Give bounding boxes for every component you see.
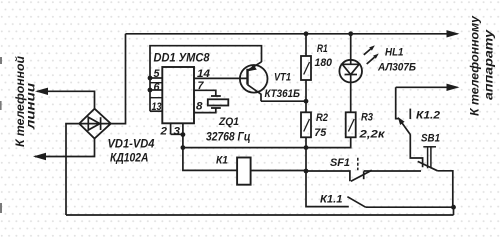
diode bridge VD1-VD4 diamond: [79, 109, 111, 139]
node: bottom right junction: [451, 205, 456, 210]
resistor R3: [346, 112, 356, 137]
wire: top supply rail with arrow to telephone set: [126, 30, 460, 37]
node: junction to R2 line: [181, 145, 186, 150]
svg-text:HL1: HL1: [385, 47, 404, 59]
LED HL1: [339, 34, 362, 83]
K1.2 fixed contact tick: [409, 109, 411, 119]
SF1 right contact stub: [363, 171, 365, 179]
svg-text:DD1 УМС8: DD1 УМС8: [154, 50, 210, 64]
IC DD1 body: [162, 67, 194, 123]
VT1 collector: [248, 85, 262, 102]
node: pin 5 junction: [148, 76, 153, 81]
wire: pin 3 down to K1 coil: [183, 134, 237, 170]
wire: node to R2/R3 bottoms: [183, 148, 306, 171]
wire: IC pin bus loop over DD1 to VT1 emitter: [150, 46, 262, 112]
svg-text:К телефонному: К телефонному: [468, 15, 482, 116]
svg-text:VD1-VD4: VD1-VD4: [108, 138, 156, 150]
svg-text:2,2к: 2,2к: [358, 129, 386, 141]
wire: lower left line to telephone line with arrow (from bridge bottom): [33, 139, 95, 161]
crystal ZQ1: [208, 96, 229, 108]
svg-text:аппарату: аппарату: [482, 28, 496, 100]
wire: lower right line to telephone set with arrow: [396, 84, 460, 91]
node: rail junction at HL1: [348, 31, 353, 36]
resistor R2: [301, 101, 311, 147]
svg-text:3: 3: [174, 126, 181, 138]
node: K1/SF1/K1.1 junction: [304, 169, 309, 174]
button SB1 blade: [418, 161, 438, 170]
wire: bridge left corner down to bottom rail: [66, 124, 79, 215]
VT1 emitter with arrow to base (PNP): [248, 62, 262, 71]
diode inside bridge: [80, 117, 110, 130]
wire: R2 bottom to R3 bottom: [306, 137, 351, 147]
contact K1.2: wire down: [396, 87, 399, 118]
svg-text:75: 75: [314, 127, 327, 139]
wire: upper left line to telephone line with arrow: [35, 88, 95, 109]
VT1 base bar: [246, 69, 248, 85]
svg-text:R1: R1: [317, 43, 328, 55]
wire: node to SF1: [306, 171, 350, 181]
node: collector junction: [304, 99, 309, 104]
pin 13 stub: [150, 110, 162, 112]
wire: pin2-pin3 tie: [171, 133, 183, 135]
SF1 mechanical dashed link: [357, 158, 359, 171]
SB1 actuator: [423, 147, 436, 169]
pin 14 wire to VT1 base: [194, 77, 248, 79]
resistor R1: [301, 34, 311, 101]
svg-text:SB1: SB1: [421, 133, 440, 145]
wire: K1.1 to bottom right node: [366, 206, 454, 208]
svg-text:К1.2: К1.2: [416, 110, 440, 122]
svg-text:К1.1: К1.1: [320, 194, 343, 206]
pin 2 stub: [170, 123, 172, 134]
svg-text:ZQ1: ZQ1: [218, 116, 239, 128]
pin 5 stub: [150, 77, 162, 79]
wire: bridge right corner up to top rail: [111, 34, 126, 124]
svg-text:КТ361Б: КТ361Б: [265, 88, 301, 100]
svg-text:180: 180: [315, 57, 333, 69]
wire: SF1 to SB1: [364, 170, 421, 172]
svg-text:АЛ307Б: АЛ307Б: [377, 62, 416, 74]
pin 13 overline: [151, 97, 163, 99]
svg-text:2: 2: [159, 126, 167, 138]
node: pin 3 junction: [181, 132, 186, 137]
node: pin 6 junction: [148, 88, 153, 93]
node: R2 bottom junction: [304, 145, 309, 150]
svg-text:линии: линии: [24, 82, 38, 130]
svg-text:КД102А: КД102А: [110, 153, 149, 165]
svg-text:32768 Гц: 32768 Гц: [206, 131, 251, 143]
relay coil K1: [237, 158, 251, 185]
svg-text:VT1: VT1: [274, 72, 291, 84]
breaker SF1 blade: [351, 170, 372, 181]
transistor VT1 circle: [240, 65, 268, 93]
svg-text:R2: R2: [316, 112, 328, 124]
svg-text:13: 13: [152, 101, 162, 113]
svg-text:8: 8: [196, 101, 203, 113]
scan artifacts on left edge: [0, 57, 2, 213]
pin 7 wire to crystal: [194, 90, 216, 96]
pin 8 wire to crystal: [194, 108, 216, 113]
HL1 emission arrows: [364, 45, 379, 64]
pin 6 overline: [151, 82, 163, 84]
svg-text:R3: R3: [361, 112, 373, 124]
pin 3 stub: [182, 123, 184, 134]
wire: bottom right node to rail: [453, 207, 455, 215]
node: rail junction at R1: [304, 31, 309, 36]
svg-text:6: 6: [154, 82, 161, 94]
svg-text:5: 5: [154, 68, 161, 80]
wire: bottom rail: [66, 214, 454, 216]
svg-text:SF1: SF1: [330, 157, 350, 169]
wire: SB1 to bottom right node: [438, 171, 453, 207]
contact K1.1 blade: [347, 197, 365, 208]
pin 6 stub: [150, 89, 162, 91]
wire: node down to K1.1: [306, 171, 349, 207]
wire: K1.2 to SB1: [410, 135, 422, 167]
wire: HL1 to R3: [350, 82, 352, 112]
wire: K1 coil to node: [251, 170, 306, 172]
wire: collector to R1/R2 junction: [261, 100, 306, 102]
K1.2 blade with arrow: [398, 117, 411, 135]
svg-text:К1: К1: [216, 155, 228, 167]
